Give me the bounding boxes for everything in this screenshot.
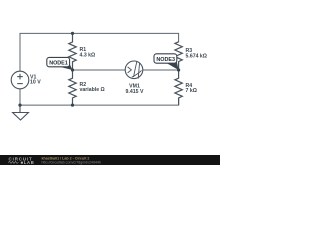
svg-text:4.3 kΩ: 4.3 kΩ [80,53,96,59]
voltage source V1 [11,71,29,89]
svg-text:variable Ω: variable Ω [80,87,105,93]
svg-text:NODE3: NODE3 [156,57,175,63]
svg-text:NODE1: NODE1 [49,61,68,67]
watermark bar [0,155,220,165]
node A junction dot top [71,32,74,35]
voltmeter VM1 [125,61,143,79]
node NODE3 label [154,54,179,70]
svg-text:9.415 V: 9.415 V [126,89,144,95]
resistor R1 [69,33,76,70]
svg-text:■LAB: ■LAB [21,160,35,165]
resistor R2 [69,70,76,105]
ground [13,105,29,120]
node ground junction dot [18,104,21,107]
resistor R4 [175,70,182,105]
node NODE1 junction dot [71,68,74,71]
resistor R3 [175,42,182,71]
svg-text:htto://circuitlab.com/c/78gmdv: htto://circuitlab.com/c/78gmdv24944h [42,161,102,165]
svg-text:5.674 kΩ: 5.674 kΩ [186,54,207,60]
node NODE3 junction dot [177,68,180,71]
wire middle right [143,69,179,71]
wire middle left [73,69,126,71]
node NODE1 label [47,57,73,70]
node R2 bottom junction dot [71,104,74,107]
svg-text:7 kΩ: 7 kΩ [186,88,197,94]
wire bottom rail [20,89,179,105]
wire top rail [20,33,179,71]
svg-text:10 V: 10 V [30,80,41,86]
